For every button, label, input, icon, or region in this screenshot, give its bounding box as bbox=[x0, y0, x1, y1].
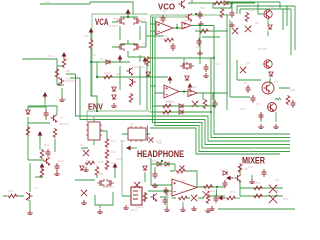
diode D3 bbox=[112, 95, 116, 99]
value text near IC9B bbox=[96, 172, 103, 176]
wire bus net2 bbox=[150, 58, 290, 138]
svg-text:VCC: VCC bbox=[282, 11, 289, 15]
value text near D1 bbox=[92, 53, 96, 57]
gnd sym GND2 bbox=[111, 103, 117, 108]
power arrow mx2 bbox=[218, 196, 226, 201]
connector J1 bbox=[131, 187, 142, 205]
svg-text:2N3906: 2N3906 bbox=[134, 65, 145, 69]
diode D7 bbox=[26, 110, 30, 114]
resistor R17 bbox=[105, 160, 109, 170]
wire VCA box outline bbox=[92, 14, 148, 96]
value text near C1 bbox=[163, 9, 167, 13]
value text near S2 bbox=[130, 122, 134, 126]
resistor R16 bbox=[105, 149, 109, 159]
power VCC4 arrow bbox=[118, 55, 123, 63]
pot X1b bbox=[232, 28, 238, 34]
diode D14 bbox=[185, 76, 189, 80]
svg-text:R30: R30 bbox=[249, 8, 255, 12]
value text near C5 bbox=[205, 57, 209, 61]
diode D5 bbox=[268, 25, 272, 29]
svg-text:T6: T6 bbox=[244, 167, 248, 171]
junction rail j2 bbox=[213, 92, 215, 94]
resistor R6 bbox=[129, 93, 133, 103]
resistor R13 bbox=[53, 128, 57, 138]
svg-text:MIXER: MIXER bbox=[242, 156, 265, 167]
junction VCA a bbox=[127, 16, 129, 18]
svg-text:S2: S2 bbox=[130, 122, 134, 126]
svg-text:IC1D: IC1D bbox=[190, 85, 198, 89]
svg-text:IC2: IC2 bbox=[90, 117, 95, 121]
transistor Q14 bbox=[44, 158, 51, 167]
value text near R12 bbox=[116, 72, 122, 76]
gnd sym GNDv2 bbox=[198, 21, 204, 26]
wire net AGND top-left bbox=[40, 2, 133, 14]
wire vcc3 stem bbox=[28, 97, 45, 107]
svg-text:X2: X2 bbox=[246, 61, 250, 65]
resistor R8 bbox=[245, 12, 249, 22]
junction u1 out bbox=[176, 27, 178, 29]
diode D2 bbox=[112, 87, 116, 91]
power VCC1 arrow bbox=[126, 9, 131, 17]
gnd sym GND1 bbox=[59, 97, 65, 102]
capacitor C1c bbox=[198, 11, 203, 19]
transistor Q1 mosfet bbox=[117, 17, 124, 25]
gnd sym GND8 bbox=[249, 179, 255, 184]
svg-text:10k: 10k bbox=[111, 139, 116, 143]
gnd sym GND12 bbox=[97, 209, 103, 214]
power VCC3 arrow bbox=[43, 92, 48, 100]
resistor R18 bbox=[85, 161, 95, 165]
resistor R4 bbox=[62, 58, 66, 68]
junction vco t1 bbox=[231, 2, 233, 4]
pot X9 bbox=[81, 190, 87, 196]
value text near R42 bbox=[86, 159, 92, 163]
power VCC10 arrow bbox=[113, 163, 118, 171]
svg-text:T1: T1 bbox=[60, 116, 64, 120]
capacitor C17 bbox=[153, 171, 158, 179]
resistor R5 bbox=[55, 68, 59, 78]
svg-text:T4: T4 bbox=[142, 42, 146, 46]
wire c11 gnd bbox=[167, 193, 183, 207]
pot X1 bbox=[245, 26, 251, 32]
gnd sym GND3 bbox=[203, 73, 209, 78]
wire right col bbox=[227, 14, 290, 110]
diode D1 bbox=[106, 60, 110, 64]
wire VCA left drop bbox=[91, 33, 168, 111]
wire u4 out bbox=[197, 187, 225, 196]
svg-text:CD4007: CD4007 bbox=[103, 185, 114, 189]
power VCC6 arrow bbox=[168, 76, 173, 84]
resistor R23 bbox=[253, 186, 263, 190]
svg-text:R44: R44 bbox=[116, 157, 122, 161]
transistor Q7 bbox=[129, 79, 136, 88]
gnd sym GND13 bbox=[123, 205, 129, 210]
svg-text:C1: C1 bbox=[163, 9, 167, 13]
value text near R50 bbox=[180, 190, 186, 194]
resistor R25 bbox=[8, 194, 18, 198]
pot X7 bbox=[269, 185, 277, 193]
gnd sym GNDv1 bbox=[229, 22, 235, 27]
transistor Q21 mosfet bbox=[187, 62, 194, 70]
value text j1 bbox=[130, 208, 138, 212]
value text near T6 bbox=[244, 167, 248, 171]
svg-text:C7: C7 bbox=[230, 37, 234, 41]
value text q13 bbox=[60, 122, 70, 126]
gnd sym GND5 bbox=[164, 207, 170, 212]
value text near T3 bbox=[142, 17, 146, 21]
wire bus net7 bbox=[150, 128, 280, 154]
transistor Q12b power bbox=[268, 103, 277, 113]
gnd sym GNDv3 bbox=[258, 124, 264, 129]
pot X8 bbox=[269, 195, 277, 203]
gnd sym GND9 bbox=[27, 210, 33, 215]
transistor Q9 bbox=[186, 14, 193, 23]
capacitor C13 bbox=[214, 195, 219, 203]
svg-text:X1: X1 bbox=[80, 143, 84, 147]
transistor Q13 bbox=[51, 115, 58, 124]
resistor R19 bbox=[162, 104, 172, 108]
svg-text:C15: C15 bbox=[220, 168, 226, 172]
power arrow left hp bbox=[126, 146, 134, 151]
wire bus net3 bbox=[66, 74, 290, 141]
resistor R19b bbox=[162, 110, 172, 114]
op-amp U1D bbox=[188, 90, 197, 97]
svg-text:R41: R41 bbox=[44, 143, 50, 147]
resistor R11 bbox=[286, 95, 290, 105]
diode D12 bbox=[143, 166, 147, 170]
capacitor C16 bbox=[163, 197, 168, 205]
svg-text:C9: C9 bbox=[243, 81, 247, 85]
capacitor C10 bbox=[46, 149, 51, 157]
value text near D5 bbox=[152, 159, 156, 163]
svg-text:D1: D1 bbox=[92, 53, 96, 57]
capacitor C14 bbox=[262, 169, 267, 177]
resistor R8b bbox=[199, 29, 209, 33]
label VCO bbox=[158, 2, 175, 12]
value text near R40 bbox=[8, 189, 14, 193]
capacitor C7 bbox=[251, 95, 256, 103]
wire vco misc bbox=[195, 31, 228, 37]
value text U1A bbox=[160, 37, 169, 41]
capacitor C11 bbox=[164, 187, 169, 195]
wire env2 nets bbox=[75, 168, 115, 208]
value text agnd bbox=[44, 0, 51, 4]
svg-text:JACK: JACK bbox=[136, 205, 144, 209]
gnd sym GND17 bbox=[197, 50, 203, 55]
value text near X2 bbox=[246, 61, 250, 65]
svg-text:R40: R40 bbox=[8, 189, 14, 193]
value text Q5 bbox=[66, 79, 76, 83]
value text q12b bbox=[268, 102, 275, 106]
pot X13 trim bbox=[180, 166, 185, 171]
wire VCO box inner edge bbox=[150, 16, 187, 18]
wire row3 cell top bbox=[28, 106, 57, 160]
resistor R20 bbox=[203, 185, 213, 189]
diode D10 bbox=[165, 162, 169, 166]
svg-text:VCC: VCC bbox=[48, 54, 55, 58]
transistor Q18 mosfet bbox=[107, 179, 114, 187]
value text near T5 bbox=[34, 186, 38, 190]
svg-text:R46: R46 bbox=[156, 139, 162, 143]
resistor R9 bbox=[164, 38, 174, 42]
resistor R7 bbox=[213, 1, 223, 5]
value text near X5 bbox=[275, 178, 279, 182]
wire hp arrow net bbox=[131, 147, 137, 149]
value text near IC1C bbox=[166, 99, 174, 103]
resistor R27 bbox=[95, 166, 99, 176]
capacitor C8 bbox=[291, 100, 296, 108]
wire opamp1 nets bbox=[150, 24, 214, 58]
svg-text:T5: T5 bbox=[34, 186, 38, 190]
svg-text:T8: T8 bbox=[274, 80, 278, 84]
svg-text:BC557: BC557 bbox=[258, 47, 268, 51]
wire u4 feedback bbox=[170, 171, 197, 187]
wire vco top net bbox=[188, 0, 255, 10]
svg-text:T7: T7 bbox=[270, 6, 274, 10]
capacitor C6 bbox=[246, 85, 251, 93]
value text U1C bbox=[166, 100, 175, 104]
value text near C10 bbox=[240, 107, 246, 111]
value text near R51 bbox=[210, 189, 216, 193]
junction vca j1 bbox=[90, 61, 92, 63]
transistor Q4 mosfet bbox=[134, 43, 141, 51]
svg-text:T2: T2 bbox=[66, 77, 70, 81]
value text R15 bbox=[111, 139, 116, 143]
resistor R30 bbox=[206, 194, 210, 204]
wire bus net5 bbox=[153, 17, 291, 148]
junction bus j2 bbox=[210, 111, 212, 113]
resistor R14 bbox=[40, 149, 44, 159]
transistor Q10 bbox=[264, 10, 273, 19]
value text near R43 bbox=[98, 160, 104, 164]
wire q16 nets bbox=[3, 163, 43, 210]
value text mx1 bbox=[248, 165, 253, 169]
value text near R53 bbox=[255, 181, 261, 185]
diode D11 bbox=[80, 166, 84, 170]
resistor R24 bbox=[253, 194, 263, 198]
capacitor C6b bbox=[259, 112, 264, 120]
value text near R8 bbox=[66, 69, 70, 73]
svg-text:OUT: OUT bbox=[248, 149, 255, 153]
diode D6 bbox=[269, 72, 273, 76]
diode D8 bbox=[179, 104, 183, 108]
value text near IC1A bbox=[160, 34, 167, 38]
wire VCA pair top bbox=[112, 14, 163, 47]
wire env wiring bbox=[81, 117, 150, 148]
wire r31 net bbox=[234, 197, 240, 199]
wire hp diode row bbox=[151, 164, 175, 171]
transistor Q11 bbox=[264, 60, 273, 69]
value text near X6 bbox=[275, 189, 279, 193]
resistor R1 bbox=[89, 39, 93, 49]
value text near R22 bbox=[214, 62, 220, 66]
value text near T9 bbox=[256, 102, 260, 106]
value text near T10 bbox=[200, 6, 206, 10]
value text near VCC bbox=[48, 54, 55, 58]
gnd sym GND14 bbox=[191, 206, 197, 211]
gnd sym GND6 bbox=[180, 207, 186, 212]
power VCC1b arrow bbox=[89, 28, 94, 36]
svg-text:R42: R42 bbox=[86, 159, 92, 163]
wire VCA pair2 loop bbox=[112, 40, 146, 57]
svg-text:IC1C: IC1C bbox=[166, 99, 174, 103]
value text near IC2 bbox=[90, 117, 95, 121]
capacitor C12 bbox=[223, 180, 228, 188]
wire q10 conn bbox=[258, 3, 268, 36]
svg-text:IC9A: IC9A bbox=[113, 17, 120, 21]
wire q12b sq bbox=[261, 98, 281, 122]
capacitor C1b bbox=[230, 10, 235, 18]
gnd sym GND11 bbox=[81, 200, 87, 205]
value text near IC3 bbox=[176, 171, 181, 175]
resistor R3 bbox=[103, 75, 113, 79]
junction u1b out j bbox=[199, 24, 201, 26]
gnd sym GND7 bbox=[209, 206, 215, 211]
junction env j bbox=[96, 110, 98, 112]
value text near T4 bbox=[142, 42, 146, 46]
wire vco bus right2 bbox=[225, 2, 280, 8]
svg-text:100k: 100k bbox=[104, 71, 111, 75]
ic U2 box bbox=[86, 122, 102, 140]
power VCC5 arrow bbox=[143, 57, 148, 65]
op-amp U1B bbox=[182, 22, 191, 29]
pot X3 bbox=[192, 101, 198, 107]
junction u1c bbox=[183, 90, 185, 92]
pot X5 bbox=[83, 150, 89, 156]
svg-text:X6: X6 bbox=[275, 189, 279, 193]
value text near R45 bbox=[120, 139, 126, 143]
resistor R32 bbox=[146, 56, 150, 66]
wire vco bus right bbox=[237, 6, 295, 55]
svg-text:C5: C5 bbox=[205, 57, 209, 61]
op-amp U1A bbox=[156, 22, 173, 35]
wire u1c out bbox=[179, 92, 228, 101]
transistor Q2 mosfet bbox=[134, 17, 141, 25]
wire env cluster bbox=[120, 55, 147, 110]
svg-text:10k: 10k bbox=[111, 150, 116, 154]
junction u4o bbox=[216, 186, 218, 188]
svg-text:IC1A: IC1A bbox=[160, 34, 167, 38]
pot X6 bbox=[203, 191, 210, 198]
svg-text:C12: C12 bbox=[58, 159, 64, 163]
diode D9 bbox=[157, 162, 161, 166]
op-amp U4 bbox=[172, 179, 197, 196]
diode D4 bbox=[224, 1, 228, 5]
value text x12 bbox=[157, 141, 162, 145]
svg-text:1k: 1k bbox=[111, 161, 115, 165]
value text R1 bbox=[84, 34, 89, 38]
value text Q6 bbox=[134, 65, 145, 69]
gnd sym GND16 bbox=[152, 183, 158, 188]
svg-text:VCC: VCC bbox=[44, 0, 51, 4]
power VCC2 arrow bbox=[62, 52, 67, 60]
wire bus net6 bbox=[155, 17, 290, 152]
wire row3 left bbox=[28, 123, 55, 160]
pot X12 trim bbox=[149, 138, 154, 143]
resistor R12 bbox=[26, 126, 30, 136]
resistor R28 bbox=[143, 192, 147, 202]
resistor R22 bbox=[238, 163, 242, 173]
transistor Q6 bbox=[127, 68, 134, 77]
pot X4 bbox=[240, 67, 246, 73]
op-amp U1C bbox=[164, 85, 179, 98]
wire bottom mid bbox=[160, 197, 204, 198]
svg-text:47k: 47k bbox=[248, 165, 253, 169]
value text near T1 bbox=[60, 116, 64, 120]
transistor Q15 bbox=[235, 175, 242, 184]
value text near GND bbox=[60, 97, 68, 101]
label VCA bbox=[95, 17, 109, 27]
gnd sym GND10 bbox=[54, 171, 60, 176]
svg-text:10k: 10k bbox=[84, 34, 89, 38]
svg-text:IC9B: IC9B bbox=[96, 172, 103, 176]
value text near X1 bbox=[80, 143, 84, 147]
resistor R31 bbox=[226, 196, 236, 200]
svg-text:R51: R51 bbox=[210, 189, 216, 193]
value text near OUT bbox=[248, 149, 255, 153]
transistor Q16 bbox=[26, 193, 33, 202]
svg-text:R54: R54 bbox=[283, 197, 289, 201]
wire left bias net bbox=[22, 59, 64, 97]
svg-text:IC3: IC3 bbox=[176, 171, 181, 175]
capacitor C15 bbox=[55, 163, 60, 171]
svg-text:R19: R19 bbox=[196, 45, 202, 49]
junction vca y77 j bbox=[96, 76, 98, 78]
junction vco t2 bbox=[195, 13, 197, 15]
resistor R15 bbox=[105, 138, 109, 148]
svg-text:R45: R45 bbox=[120, 139, 126, 143]
svg-text:D2: D2 bbox=[100, 57, 104, 61]
value text near R30 bbox=[249, 8, 255, 12]
power arrow left mx bbox=[226, 176, 234, 181]
pot X11 bbox=[191, 195, 197, 201]
value text near X4 bbox=[205, 188, 209, 192]
transistor Q17 mosfet bbox=[97, 179, 104, 187]
value text near VCC bbox=[282, 11, 289, 15]
svg-text:R50: R50 bbox=[180, 190, 186, 194]
transistor Q8 bbox=[179, 1, 186, 10]
transistor Q5 bbox=[58, 78, 65, 87]
value text near C16 bbox=[166, 192, 172, 196]
value text near R19 bbox=[196, 45, 202, 49]
svg-text:GND: GND bbox=[60, 97, 68, 101]
svg-text:R31: R31 bbox=[290, 88, 296, 92]
svg-text:R12: R12 bbox=[116, 72, 122, 76]
transistor Q3 mosfet bbox=[117, 43, 124, 51]
resistor R8c bbox=[220, 8, 224, 18]
capacitor C18 bbox=[197, 38, 202, 46]
value text R16 bbox=[111, 150, 116, 154]
junction rail j1 bbox=[213, 57, 215, 59]
value text near R54 bbox=[283, 197, 289, 201]
svg-text:X4: X4 bbox=[205, 188, 209, 192]
transistor Q19 bbox=[151, 194, 158, 203]
wire mixer bottom line bbox=[218, 208, 295, 210]
wire bus net1 bbox=[152, 26, 290, 135]
diode D15 bbox=[146, 72, 150, 76]
resistor R26 bbox=[40, 168, 44, 178]
svg-text:T10: T10 bbox=[200, 6, 206, 10]
svg-text:D5: D5 bbox=[152, 159, 156, 163]
resistor R10 bbox=[203, 99, 207, 109]
wire hp left col bbox=[148, 158, 172, 191]
svg-text:R53: R53 bbox=[255, 181, 261, 185]
value text near C15 bbox=[220, 168, 226, 172]
svg-text:T9: T9 bbox=[256, 102, 260, 106]
capacitor C2 bbox=[171, 43, 176, 51]
transistor Q12 power bbox=[262, 82, 274, 94]
value text near R41 bbox=[44, 143, 50, 147]
